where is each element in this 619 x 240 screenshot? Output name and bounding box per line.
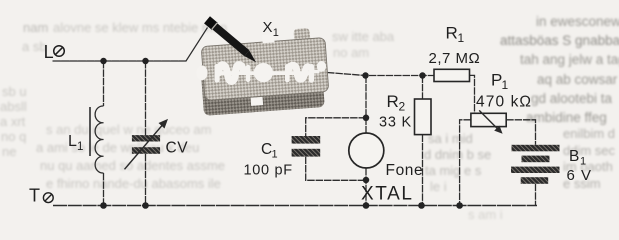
svg-text:1: 1 bbox=[580, 156, 586, 168]
svg-text:enilbim d: enilbim d bbox=[563, 126, 615, 141]
svg-text:tah ang jelw a tago: tah ang jelw a tago bbox=[520, 52, 619, 67]
wire: R2 bottom to ground bus bbox=[422, 135, 424, 206]
label XTAL bbox=[361, 184, 414, 205]
svg-text:R: R bbox=[446, 23, 458, 42]
junction: bus at CV bbox=[142, 202, 149, 209]
terminal T open-circle symbol bbox=[43, 193, 53, 203]
svg-text:sb u: sb u bbox=[2, 84, 27, 99]
svg-text:gd alootebi ta: gd alootebi ta bbox=[531, 91, 613, 106]
svg-text:s am i: s am i bbox=[468, 207, 503, 222]
svg-text:33 K: 33 K bbox=[379, 115, 412, 131]
wire: B1 negative to ground bus bbox=[535, 184, 537, 206]
pencil detector probe of X1 bbox=[204, 16, 260, 65]
svg-text:e fhirno nande-du abasoms ile: e fhirno nande-du abasoms ile bbox=[46, 176, 221, 191]
svg-text:ta mig e s: ta mig e s bbox=[425, 163, 482, 178]
svg-text:sa i mid: sa i mid bbox=[428, 131, 473, 146]
value 100 pF bbox=[244, 163, 293, 179]
svg-text:attasböas S gnabba o: attasböas S gnabba o bbox=[500, 33, 619, 48]
svg-text:CV: CV bbox=[166, 140, 189, 157]
variable capacitor CV bbox=[125, 119, 169, 169]
label B1 bbox=[569, 148, 586, 168]
svg-text:ne: ne bbox=[2, 144, 16, 159]
svg-text:ambidine ffeg: ambidine ffeg bbox=[526, 110, 607, 125]
label L1 bbox=[68, 133, 83, 153]
L1 core bar bbox=[89, 107, 91, 156]
label X1 bbox=[263, 19, 279, 39]
svg-text:X: X bbox=[263, 19, 273, 36]
wire: node A diagonal up to pencil of X1 bbox=[186, 28, 208, 62]
wire: Fone bottom to ground bus bbox=[365, 168, 367, 206]
battery B1 bbox=[511, 145, 560, 184]
crystal earphone Fone XTAL bbox=[349, 133, 384, 168]
wire: CV bottom plate to ground bus bbox=[145, 154, 147, 206]
razor blade X1 cutouts bbox=[196, 34, 326, 106]
junction: bus at P1 bbox=[456, 202, 463, 209]
terminal L open-circle symbol bbox=[54, 46, 65, 57]
svg-text:470 kΩ: 470 kΩ bbox=[476, 94, 532, 111]
label C1 bbox=[261, 141, 278, 161]
svg-text:B: B bbox=[569, 148, 579, 165]
svg-text:in ewesconewe: in ewesconewe bbox=[536, 14, 619, 29]
svg-text:absll: absll bbox=[0, 99, 27, 114]
svg-text:no am: no am bbox=[333, 45, 369, 60]
wire: R1 right lead down to P1 bbox=[470, 75, 475, 113]
wire: node B down to Fone top bbox=[365, 76, 367, 134]
label P1 bbox=[491, 71, 509, 93]
junction: node B at R2 column bbox=[419, 72, 426, 79]
wire: node A down to L1 top bbox=[103, 61, 105, 106]
razor blade X1 body bbox=[201, 38, 329, 101]
svg-text:alovne se klew ms ntebie men: alovne se klew ms ntebie men bbox=[53, 20, 227, 35]
junction: node B at Fone column bbox=[362, 72, 369, 79]
terminal L label bbox=[44, 42, 54, 62]
svg-text:6 V: 6 V bbox=[567, 167, 593, 184]
svg-text:100 pF: 100 pF bbox=[244, 163, 293, 179]
svg-text:d dnim b se: d dnim b se bbox=[424, 147, 491, 162]
svg-text:2: 2 bbox=[399, 100, 406, 114]
svg-text:no q: no q bbox=[1, 129, 26, 144]
svg-text:R: R bbox=[387, 92, 399, 111]
svg-text:1: 1 bbox=[272, 149, 278, 161]
wire: C1 bottom plate to node D bbox=[306, 157, 366, 181]
wire: blade X1 output to node B and R1 left lead bbox=[327, 73, 434, 76]
resistor R1 bbox=[434, 69, 470, 81]
svg-text:L: L bbox=[44, 42, 54, 62]
value 2,7 MΩ bbox=[429, 50, 481, 67]
wire: node C branch to C1 top plate bbox=[306, 118, 366, 136]
razor blade X1 shadow bbox=[200, 54, 325, 116]
svg-text:aq ab cowsar: aq ab cowsar bbox=[537, 72, 618, 87]
junction: bus at Fone bbox=[363, 202, 370, 209]
razor blade X1 top-right tab bbox=[293, 28, 310, 45]
label R2 bbox=[387, 92, 406, 114]
svg-text:L: L bbox=[68, 133, 77, 150]
svg-text:T: T bbox=[29, 185, 40, 205]
wire: antenna lead L to node A bbox=[53, 60, 186, 62]
potentiometer P1 bbox=[471, 110, 506, 133]
label CV bbox=[166, 140, 189, 157]
junction: node A at L1 bbox=[100, 58, 107, 65]
svg-text:XTAL: XTAL bbox=[361, 184, 414, 205]
value 470 kΩ bbox=[476, 94, 532, 111]
wire: node B2 down to R2 top bbox=[422, 76, 424, 100]
junction: node A at CV bbox=[142, 58, 149, 65]
wire: L1 bottom to ground bus bbox=[103, 173, 105, 206]
svg-text:le i: le i bbox=[430, 179, 447, 194]
junction: bus at L1 bbox=[100, 202, 107, 209]
label Fone bbox=[386, 162, 424, 179]
junction: node D (C1 return) bbox=[363, 177, 370, 184]
bleed-through text background bbox=[0, 20, 395, 191]
label R1 bbox=[446, 23, 465, 45]
value 6 V bbox=[567, 167, 593, 184]
svg-text:sw itte aba: sw itte aba bbox=[332, 29, 395, 44]
inductor L1 winding bbox=[95, 106, 103, 173]
wire: ground bus from terminal T to B1 bbox=[53, 205, 537, 207]
svg-text:1: 1 bbox=[273, 27, 279, 39]
wire: P1 left lead to ground bus bbox=[460, 120, 471, 206]
wire: node A to CV top plate bbox=[145, 61, 147, 135]
resistor R2 bbox=[415, 99, 432, 135]
terminal T label bbox=[29, 185, 40, 205]
svg-text:1: 1 bbox=[77, 141, 83, 153]
value 33 K bbox=[379, 115, 412, 131]
svg-text:a xrt: a xrt bbox=[0, 114, 26, 129]
svg-text:1: 1 bbox=[458, 31, 465, 45]
svg-text:Fone: Fone bbox=[386, 162, 424, 179]
junction: node C (C1 branch) bbox=[363, 115, 370, 122]
svg-text:nam: nam bbox=[23, 20, 48, 35]
wire: P1 right lead to B1 positive bbox=[506, 120, 535, 145]
svg-text:1: 1 bbox=[502, 78, 509, 92]
junction: bus at R2 bbox=[418, 202, 425, 209]
svg-text:2,7 MΩ: 2,7 MΩ bbox=[429, 50, 481, 67]
right column bleed text bbox=[500, 14, 619, 125]
capacitor C1 bbox=[292, 136, 321, 157]
